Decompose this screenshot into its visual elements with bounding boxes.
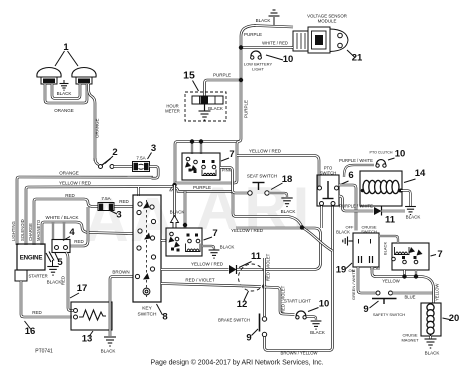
svg-text:ORANGE: ORANGE xyxy=(59,171,79,176)
svg-text:SAFETY SWITCH: SAFETY SWITCH xyxy=(373,312,405,317)
svg-text:LIGHT: LIGHT xyxy=(252,67,264,72)
svg-text:BLACK: BLACK xyxy=(281,209,296,214)
svg-text:ENGINE: ENGINE xyxy=(20,255,43,262)
svg-text:19: 19 xyxy=(336,265,347,276)
svg-text:BLACK: BLACK xyxy=(220,245,235,250)
svg-text:BLACK: BLACK xyxy=(406,215,421,220)
svg-text:17: 17 xyxy=(77,283,88,294)
svg-text:BLACK: BLACK xyxy=(256,18,271,23)
svg-text:PTO CLUTCH: PTO CLUTCH xyxy=(370,151,393,155)
svg-text:PT0741: PT0741 xyxy=(35,349,53,355)
svg-text:SEAT SWITCH: SEAT SWITCH xyxy=(247,174,277,179)
svg-text:5: 5 xyxy=(57,257,63,268)
svg-text:14: 14 xyxy=(415,168,426,179)
svg-text:4: 4 xyxy=(69,227,75,238)
svg-text:YELLOW / RED: YELLOW / RED xyxy=(249,149,282,154)
svg-text:PURPLE / WHITE: PURPLE / WHITE xyxy=(339,158,373,163)
svg-text:Page design © 2004-2017 by ARI: Page design © 2004-2017 by ARI Network S… xyxy=(151,359,324,367)
svg-text:START LIGHT: START LIGHT xyxy=(284,299,311,304)
svg-text:15: 15 xyxy=(183,70,195,82)
svg-text:9: 9 xyxy=(363,304,368,315)
svg-text:BLACK: BLACK xyxy=(170,210,185,215)
svg-text:8: 8 xyxy=(162,312,167,323)
svg-text:YELLOW: YELLOW xyxy=(382,279,400,284)
svg-text:GREEN / WHITE: GREEN / WHITE xyxy=(351,269,356,300)
svg-text:9: 9 xyxy=(246,333,251,344)
svg-text:RED / VIOLET: RED / VIOLET xyxy=(185,278,215,283)
svg-text:BLACK: BLACK xyxy=(57,91,72,96)
svg-text:BRAKE SWITCH: BRAKE SWITCH xyxy=(218,318,250,323)
svg-text:MODULE: MODULE xyxy=(318,19,337,24)
svg-text:KEY: KEY xyxy=(142,306,152,312)
svg-text:10: 10 xyxy=(283,54,294,65)
svg-text:21: 21 xyxy=(352,53,363,64)
svg-text:ORANGE: ORANGE xyxy=(95,118,100,138)
svg-text:11: 11 xyxy=(251,251,262,262)
svg-text:RED: RED xyxy=(61,276,66,285)
svg-text:BLACK: BLACK xyxy=(383,242,388,255)
svg-text:YELLOW / RED: YELLOW / RED xyxy=(191,262,224,267)
svg-text:6: 6 xyxy=(348,170,353,181)
svg-text:PURPLE: PURPLE xyxy=(244,100,249,118)
svg-text:20: 20 xyxy=(449,313,460,324)
svg-text:BLACK: BLACK xyxy=(208,106,223,111)
svg-text:STARTER: STARTER xyxy=(29,274,48,279)
svg-text:RED / VIOLET: RED / VIOLET xyxy=(266,253,271,281)
svg-text:10: 10 xyxy=(319,299,330,310)
svg-text:RED: RED xyxy=(32,310,42,315)
svg-text:BLACK: BLACK xyxy=(425,351,440,356)
svg-text:BLACK: BLACK xyxy=(310,330,325,335)
svg-text:7: 7 xyxy=(212,228,217,239)
svg-text:RED: RED xyxy=(65,193,75,198)
svg-text:LIGHTING: LIGHTING xyxy=(11,221,16,241)
svg-text:METER: METER xyxy=(165,109,180,114)
svg-text:BLACK: BLACK xyxy=(336,230,350,235)
svg-text:BLUE: BLUE xyxy=(405,295,416,300)
svg-text:SWITCH: SWITCH xyxy=(138,312,157,318)
svg-text:YELLOW: YELLOW xyxy=(435,283,440,301)
svg-text:RED: RED xyxy=(74,239,84,244)
svg-text:10: 10 xyxy=(395,149,406,160)
svg-text:13: 13 xyxy=(82,334,93,345)
svg-text:12: 12 xyxy=(237,299,248,310)
svg-text:MAGNETO: MAGNETO xyxy=(36,219,41,241)
svg-text:SWITCH: SWITCH xyxy=(361,229,377,234)
svg-text:ORANGE: ORANGE xyxy=(54,108,74,113)
svg-text:11: 11 xyxy=(385,215,396,226)
svg-text:PURPLE: PURPLE xyxy=(213,73,231,78)
svg-text:BLACK: BLACK xyxy=(101,349,116,354)
svg-text:CHARGE: CHARGE xyxy=(28,223,33,241)
svg-text:18: 18 xyxy=(282,174,293,185)
svg-text:7.5A: 7.5A xyxy=(136,156,145,161)
svg-text:BLACK: BLACK xyxy=(47,280,62,285)
svg-text:SOLENOID: SOLENOID xyxy=(20,219,25,241)
svg-text:YELLOW / RED: YELLOW / RED xyxy=(59,181,92,186)
svg-text:YELLOW / RED: YELLOW / RED xyxy=(231,228,264,233)
svg-text:PURPLE: PURPLE xyxy=(193,185,211,190)
svg-text:SWITCH: SWITCH xyxy=(320,171,337,176)
svg-text:BROWN: BROWN xyxy=(112,270,129,275)
svg-text:7: 7 xyxy=(229,149,234,160)
svg-text:WHITE / BLACK: WHITE / BLACK xyxy=(45,215,78,220)
svg-text:BROWN / YELLOW: BROWN / YELLOW xyxy=(281,351,318,356)
svg-text:3: 3 xyxy=(116,210,121,221)
svg-text:7.5A: 7.5A xyxy=(101,196,110,201)
svg-text:3: 3 xyxy=(151,143,156,154)
svg-text:MAGNET: MAGNET xyxy=(401,338,419,343)
svg-text:WHITE / RED: WHITE / RED xyxy=(262,41,288,46)
svg-text:RED: RED xyxy=(119,199,129,204)
svg-text:PURPLE: PURPLE xyxy=(244,32,262,37)
svg-text:7: 7 xyxy=(437,249,442,260)
